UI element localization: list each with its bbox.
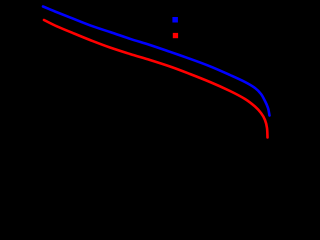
legend marker: red square: [173, 33, 178, 38]
blue data curve: [43, 7, 270, 116]
chart plot area (black background, axes invisible): [0, 0, 281, 177]
red data curve: [44, 20, 268, 138]
legend marker: blue square: [172, 17, 178, 23]
